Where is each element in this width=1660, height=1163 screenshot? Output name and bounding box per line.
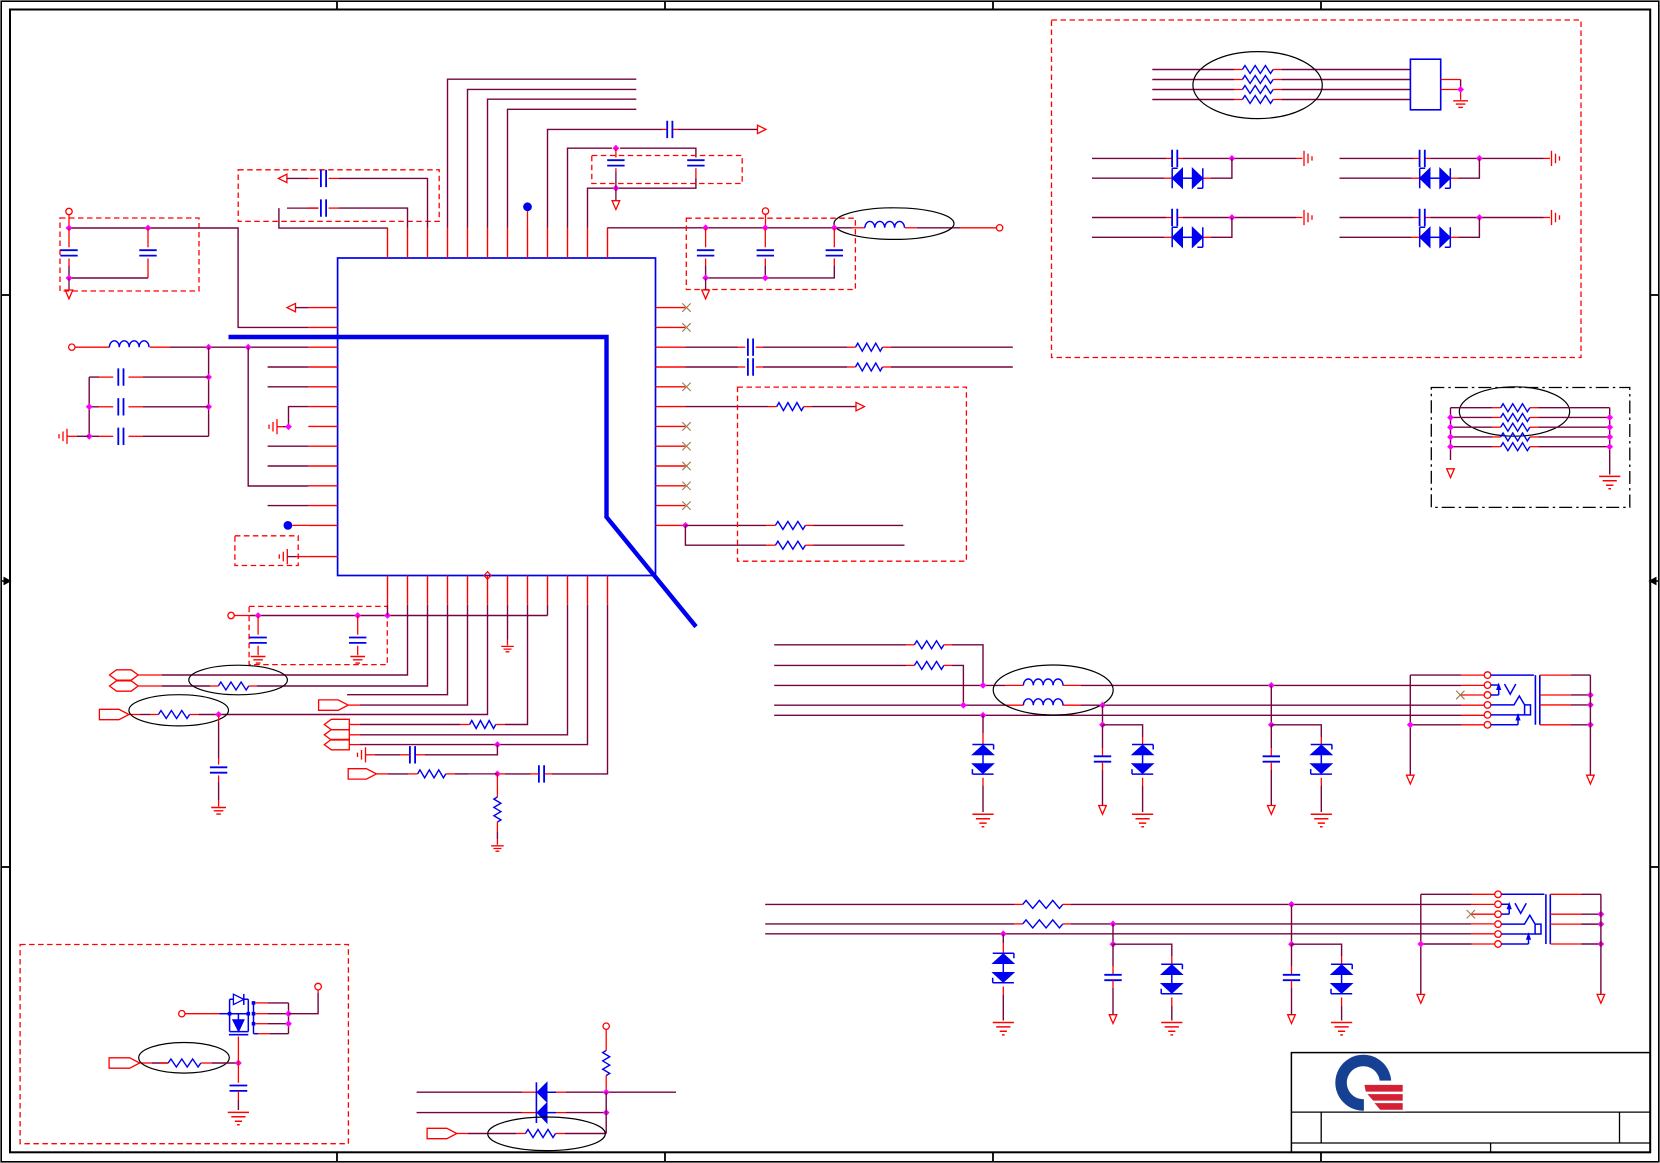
wire upper R row1 [774,644,906,646]
wire B1 bottom [69,266,148,278]
resistor R18 [526,1130,556,1138]
wire capA stem [1291,944,1293,966]
resistor pack RN1-3 [1242,86,1273,94]
pin bottom 10 of U1 [567,576,569,605]
diode pair unit4 [1420,227,1426,247]
junction W4 a [960,702,967,709]
jack J2 pin circle 5 [1495,931,1502,938]
ground flag B1 [65,290,73,299]
capacitor C x=834.3 [826,250,843,255]
wire stub left pin y=446.2 [268,445,309,447]
junction 3cap bot a [702,275,709,282]
pin top 9 of U1 [547,228,549,259]
arrow out right R4 [856,402,865,410]
jack J2 body bars [1546,894,1550,944]
ground earth unit4 [1552,210,1560,225]
resistor R2 [856,343,883,351]
ground earth unit3 [1304,210,1312,225]
jack J2 right stub y=695.0 [1550,913,1581,915]
border tick bottom x=1321 [1320,1152,1322,1161]
capacitor C9 [118,428,123,445]
capacitor C14 [210,767,227,772]
capacitor C2b [687,160,704,165]
wire pin3 tag row [257,605,428,686]
border tick left y=295 [1,294,10,296]
capacitor 3cap legs x=765.3 [764,228,766,248]
capacitor unit4 [1420,209,1425,226]
inductor L1 [109,341,149,347]
ground flag C18 [1268,806,1276,815]
capacitor C5 legs [68,228,70,247]
wire branch3 right [1271,725,1321,737]
wire branch x248 [248,347,308,486]
jack J1 right stub y=724.8 [1540,724,1571,726]
logo ring cutout [1364,1081,1406,1112]
pin right 7 of U1 [656,425,686,427]
junction under a [255,612,262,619]
pin bottom 1 of U1 [387,576,389,605]
ground earth row11 [358,747,366,762]
wire unit2 rowA [1340,157,1414,159]
wire RN2 row 3 [1451,426,1493,428]
jack J2 junction right rail y=724.8 [1598,941,1605,948]
resistor pack RN1-2 [1242,76,1273,84]
power pin diamond marker [484,572,491,580]
wire RN2 row 2 [1451,416,1493,418]
ground flag C20 [1288,1015,1296,1024]
capacitor C11 [748,358,753,375]
title block divider a [1320,1112,1322,1143]
junction RN1 out [1457,86,1464,93]
junction B1 c [66,275,73,282]
wire row 347.2 seg2 [756,346,763,348]
capacitor C9 row [99,435,113,437]
ground earth left bank [59,429,67,444]
jack J2 no-connect X [1471,913,1495,915]
junction RN2 R4 [1606,443,1613,450]
wire tvs2 gnd [1142,778,1144,786]
resistor RN2-5 [1501,443,1530,451]
wire cap3 flag [1270,762,1272,770]
wire row 545 tail [805,544,813,546]
wire branch 545 [685,525,766,545]
wire C14 gnd [218,775,220,782]
capacitor C12 [249,638,266,643]
wire cap2 stem [1102,725,1104,748]
junction y148 [613,145,620,152]
TVS D2 [1132,745,1153,750]
border tick right y=295 [1650,294,1659,296]
ground IEC RN1 [1453,101,1468,108]
resistor R8 [158,711,189,719]
wire lower row C [765,933,1471,935]
wire R13 corner [944,664,952,666]
ground IEC D2 [1132,814,1153,826]
jack J1 left ground rail [1409,675,1411,775]
junction row 426 [285,423,292,430]
junction W4 b [1099,702,1106,709]
TVS D4 [993,953,1014,958]
pin bottom 9 of U1 [547,576,549,605]
ground IEC C13 [350,657,365,664]
jack J1 switch V contact [1505,684,1516,694]
junction row11 [494,741,501,748]
junction R8 [215,711,222,718]
wire row 347.2 seg3 [883,346,892,348]
ground IEC C21 [228,1112,249,1124]
title block row line 2 [1291,1142,1650,1144]
capacitor C6 legs [147,228,149,247]
ellipse mark RN1 [1193,52,1322,119]
terminal circle under [228,612,234,618]
wire row 525 [685,524,766,526]
pin bottom 3 of U1 [427,576,429,605]
pin bottom 12 of U1 [607,576,609,605]
tag pent C [319,700,349,710]
junction unit1 [1229,155,1236,162]
wire T3 down [605,1029,607,1050]
border tick bottom x=993 [992,1152,994,1161]
wire gate [185,1013,220,1015]
pin left 7 of U1 [308,425,337,427]
IC U1 body [338,258,656,576]
wire tvs5 gnd [1171,998,1173,1007]
jack J2 sleeve line [1501,893,1544,895]
pin right 12 of U1 [656,524,686,526]
jack J1 wire pin6 stub [1461,724,1484,726]
wire lower row A [765,903,1014,905]
tag pent E [324,719,349,729]
wire row 367 seg3 [883,366,892,368]
terminal circle P2 [69,344,75,350]
jack J1 body bars [1535,675,1539,725]
ground flag C2a [612,201,620,210]
jack J1 tip contact [1491,696,1531,715]
ground IEC C14 [211,808,226,815]
jack J1 sleeve line [1491,674,1534,676]
wire upper R row2 [774,664,906,666]
junction 3cap bot b [762,275,769,282]
jack J1 junction right rail y=695.0 [1587,692,1594,699]
resistor R11 vertical [494,797,501,822]
transistor Q1 right bar [253,1003,255,1034]
wire R9 left [460,724,470,726]
jack J1 pin circle 6 [1484,722,1491,729]
title block divider c [1490,1143,1492,1152]
dashed box decoupling top [592,156,742,184]
junction W3 b [1268,682,1275,689]
wire row 406 to arrow [804,406,812,408]
jack J1 pin circle 2 [1484,682,1491,689]
no-connect X at right pin y=466 [682,462,690,470]
resistor R3 [856,363,883,371]
wire R10 to tag [408,773,418,775]
wire tvs6 gnd [1341,998,1343,1007]
junction Q1 source [235,1060,242,1067]
wire unit1 rowA [1092,157,1166,159]
jack J1 junction left rail [1407,721,1414,728]
ground IEC D1 [972,814,993,826]
capacitor C3 [321,170,326,187]
wire cap bank left bus [88,377,90,436]
wire B1 flag stem [68,278,70,290]
wire respack row 3 [1152,89,1234,91]
ground flag C17 [1099,806,1107,815]
ground IEC D3 [1311,814,1332,826]
title block divider b [1619,1112,1621,1143]
junction RN2 R3 [1606,434,1613,441]
terminal circle B1 [66,208,72,214]
pin top 2 of U1 [407,228,409,259]
tag hex A [110,670,139,680]
wire earth to bank [67,435,77,437]
jack J1 right stub y=675.1 [1540,674,1571,676]
jack J2 right stub y=675.1 [1550,893,1581,895]
no-connect X at right pin y=307.6 [682,303,690,311]
audio jack J1 [1407,672,1595,784]
junction L1 b [245,344,252,351]
capacitor C13 legs [357,616,359,635]
junction RN2 L1 [1447,414,1454,421]
wire capB stem [1112,944,1114,966]
inductor L2 [865,221,905,227]
no-connect X at right pin y=446.2 [682,442,690,450]
junction row12 [494,771,501,778]
pin right 5 of U1 [656,386,686,388]
tag pent H [348,769,376,779]
jack J1 no-connect X [1460,694,1484,696]
wire RN2 row 4 [1451,436,1493,438]
title block outline [1291,1053,1650,1153]
jack J1 pin circle 5 [1484,712,1491,719]
wire row 367 seg2 [756,366,763,368]
wire R17 down [605,1076,607,1093]
ground earth pin 556 [279,549,287,564]
wire Q1 stub2 [255,1013,268,1015]
ground IEC C12 [251,657,266,664]
wire branchB right [1113,944,1172,956]
wire unit1 rowB [1092,177,1164,179]
pin top 7 of U1 [507,228,509,259]
diode pair unit1 [1172,168,1178,188]
border tick bottom x=665 [664,1152,666,1161]
wire RN1 out a [1441,79,1461,81]
pin left 11 of U1 [308,505,337,507]
capacitor C x=765.3 [757,250,774,255]
junction cap bank left a [86,403,93,410]
jack J2 pin circle 2 [1495,901,1502,908]
ellipse mark R7 [189,665,288,695]
junction RN2 L3 [1447,434,1454,441]
resistor RN2-3 [1501,423,1530,431]
jack J1 junction right rail y=724.8 [1587,721,1594,728]
capacitor C7 row [99,376,113,378]
junction under b [354,612,361,619]
ground IEC pin7 [501,646,514,651]
wire branch3 stem [1270,685,1272,724]
resistor R6 [775,541,805,549]
capacitor C21 [230,1086,248,1091]
dashed box B4 gnd pin [235,536,298,566]
ground flag 3cap [702,290,710,299]
wire R8 left [150,714,158,716]
wire tvs1 stem [982,715,984,733]
pin right 9 of U1 [656,465,686,467]
pin bottom 6 of U1 [487,576,489,605]
ground earth unit2 [1552,151,1560,166]
transistor Q1 pin squares [228,1012,232,1016]
pin right 6 of U1 [656,406,686,408]
junction row A [1288,901,1295,908]
ground flag RN2 [1447,469,1455,478]
pin left 3 of U1 [308,346,337,348]
junction W2 [603,1109,610,1116]
wire R16 to junction [201,1062,212,1064]
border tick left y=867 [1,866,10,868]
pin right 4 of U1 [656,366,686,368]
wire cap bank right bus [208,347,210,436]
pin left 4 of U1 [308,366,337,368]
bus thick blue line [229,337,697,627]
wire pin row 426 gnd [283,426,289,428]
wire lower row B [765,923,1014,925]
junction cap row2 r [205,403,212,410]
wire audio W3 [774,684,1005,686]
no-connect X at right pin y=386.8 [682,383,690,391]
junction unit2 [1476,155,1483,162]
no-connect X at right pin y=426.4 [682,422,690,430]
ground IEC D6 [1331,1023,1352,1035]
resistor RN2-1 [1501,404,1530,412]
pin bottom 2 of U1 [407,576,409,605]
TVS D1 [972,745,993,750]
pin left 1 of U1 [308,307,337,309]
wire respack row 2 [1152,79,1234,81]
wire 3cap bottom [706,266,835,278]
resistor R10 [418,770,446,778]
wire pin8 row [505,605,528,725]
dashed box B8 2cap [249,606,387,664]
wire cap3 stem [1270,725,1272,748]
junction W3 a [980,682,987,689]
wire R7 left [210,685,218,687]
wire Q1 stub1 [255,1002,268,1004]
jack J2 junction left rail [1417,941,1424,948]
wire stub left pin y=466 [268,465,309,467]
pin bottom 5 of U1 [467,576,469,605]
wire cap2 flag [1102,762,1104,770]
wire pin row 406 corner [289,407,309,427]
wire tag to R18 [457,1133,468,1135]
jack J1 right ground rail [1589,675,1591,775]
wire pin1 to row [387,605,389,616]
jack J1 switch arrow b [1516,715,1520,721]
wire RN2 row 1 [1451,407,1493,409]
wire C2a to flag [615,172,617,188]
junction RN2 L4 [1447,443,1454,450]
border tick top x=1321 [1320,1,1322,9]
wire respack row 4 [1152,99,1234,101]
wire unit4 rowA [1340,217,1414,219]
jack J2 junction right rail y=695.0 [1598,911,1605,918]
wire audio W4 [774,704,1005,706]
pin bottom 4 of U1 [447,576,449,605]
jack J2 contact 2 [1501,903,1509,905]
pin left 12 of U1 [308,524,337,526]
wire B3 row2 right [329,207,339,209]
wire tvs4 gnd [1002,987,1004,996]
wire row12 down [496,774,498,797]
capacitor C13 [349,638,366,643]
pin left 5 of U1 [308,386,337,388]
wire top bus L x=447.5 [448,79,637,227]
tag pent I [109,1058,140,1068]
pin right 2 of U1 [656,326,686,328]
dashed box B2 3cap [686,218,855,289]
capacitor C17 [1094,756,1111,761]
jack J2 tip contact [1501,915,1541,934]
tag hex B [110,681,139,691]
resistor RN2-2 [1501,413,1530,421]
jack J2 wire pin1 left [1472,893,1495,895]
junction unit3 [1229,214,1236,221]
tag pent D [99,709,128,719]
junction under c [384,612,391,619]
wire unit4 rowB [1340,236,1412,238]
junction B1 b [145,225,152,232]
wire Q1 plate to junction [237,1037,239,1064]
wire unit3 rowA [1092,217,1166,219]
border mid arrow right [1655,580,1659,582]
capacitor C8 [118,398,123,415]
junction C2a bottom [613,185,620,192]
terminal circle 3cap [762,208,768,214]
wire top bus L x=507.5 [508,109,637,227]
jack J2 ground flag right [1597,994,1605,1003]
resistor R12 [914,641,944,649]
no-connect X at right pin y=505.6 [682,501,690,509]
capacitor C1 [667,121,672,138]
wire Q1 stub4 [254,1033,259,1035]
wire capA flag [1291,981,1293,989]
capacitor C10 [748,339,753,356]
terminal circle T2 [315,983,322,990]
jack J1 junction right rail y=704.9 [1587,702,1594,709]
terminal circle T3 [603,1023,609,1029]
wire pin7 gnd [507,605,509,640]
resistor pack RN1-4 [1242,96,1273,104]
pin top 1 of U1 [387,228,389,259]
wire pin6 row [199,605,488,715]
capacitor C2a [607,160,624,165]
diode pair unit2 [1420,168,1426,188]
capacitor unit3 [1172,209,1177,226]
wire R12 corner [944,644,952,646]
ground flag C19 [1109,1015,1117,1024]
no-connect X at right pin y=485.8 [682,482,690,490]
wire pin5 row [360,605,468,705]
pin red segs cap C1 [662,128,667,130]
wire pin9 to row [547,605,549,616]
wire branchB stem [1112,924,1114,944]
capacitor C x=705.6 [697,250,714,255]
pin right 8 of U1 [656,445,686,447]
wire branchA stem [1291,904,1293,944]
wire vdd row 227 [608,227,853,229]
wire R18 to rail [556,1133,566,1135]
wire 3cap flag stem [705,278,707,290]
ground IEC R11 [491,846,504,851]
